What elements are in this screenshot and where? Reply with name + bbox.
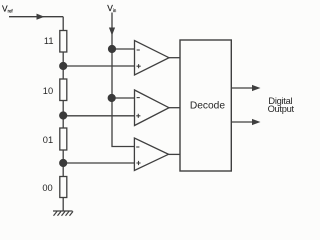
arrow Vref (37, 14, 45, 20)
wire output bit0 (231, 121, 252, 123)
wire node11 to comparator U1 + (63, 65, 134, 67)
wire U2 output (169, 107, 180, 109)
svg-text:10: 10 (43, 86, 53, 96)
wire Vin vertical (112, 13, 135, 147)
resistor R3 (01) (60, 128, 67, 150)
node 10 junction (59, 111, 67, 119)
svg-text:01: 01 (43, 135, 53, 145)
svg-text:Vref: Vref (2, 4, 13, 14)
svg-text:Vin: Vin (107, 3, 117, 13)
svg-text:Decode: Decode (190, 101, 225, 112)
wire U3 output (169, 153, 181, 155)
op-amp U2 comparator (135, 90, 170, 126)
node 11 junction (59, 62, 67, 70)
wire output bit1 (231, 87, 252, 89)
svg-text:Output: Output (268, 104, 295, 114)
resistor R top (11) (60, 31, 67, 53)
node 01 junction (59, 159, 67, 167)
svg-text:11: 11 (44, 36, 54, 46)
op-amp U1 comparator (135, 41, 170, 76)
op-amp U3 comparator (134, 138, 168, 171)
ground (53, 211, 73, 216)
wire ladder vertical (62, 17, 64, 211)
svg-text:00: 00 (42, 183, 52, 193)
wire Vin tap to U1 - (112, 48, 135, 50)
arrow output bit1 (252, 85, 261, 91)
arrow Vin (109, 28, 115, 36)
arrow output bit0 (252, 119, 261, 125)
resistor R4 (00) (60, 177, 67, 198)
decode block (180, 40, 231, 171)
wire U1 output (169, 57, 180, 59)
node Vin tap 1 junction (108, 45, 116, 53)
resistor R2 (10) (60, 79, 67, 101)
wire Vref horizontal (9, 16, 63, 18)
wire node10 to comparator U2 + (63, 115, 134, 117)
wire Vin tap to U2 - (112, 97, 135, 99)
wire node01 to comparator U3 + (63, 162, 134, 164)
node Vin tap 2 junction (108, 94, 116, 102)
